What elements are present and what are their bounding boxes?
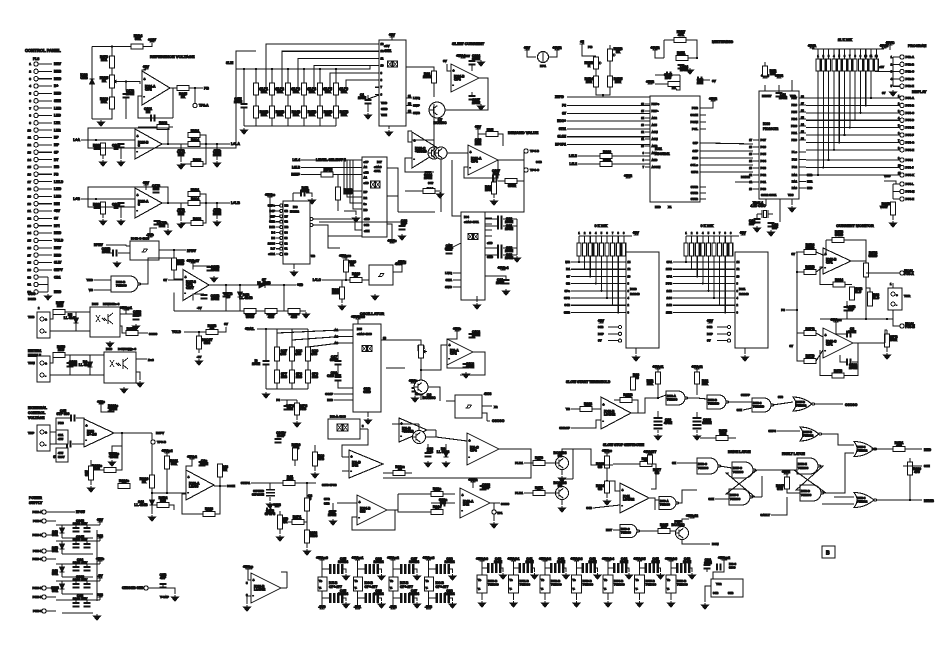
wire picvdd2 (791, 80, 793, 85)
label R3B3 (806, 243, 815, 250)
wire ra2 3 t (589, 236, 591, 243)
wire hc cap (319, 222, 402, 225)
junction (886, 318, 888, 320)
resistor R array1-8 (853, 59, 857, 71)
wire c33n r (446, 502, 455, 504)
svg-text:LMB: LMB (54, 106, 62, 110)
wire opto1 g (138, 332, 148, 334)
label C23 hc (401, 219, 408, 226)
svg-text:3000: 3000 (729, 566, 736, 570)
svg-text:V+: V+ (510, 579, 514, 582)
label R282 (159, 121, 167, 128)
wire cb3 c (577, 567, 582, 569)
pin hc 4 (280, 226, 283, 229)
junction (865, 318, 867, 320)
resistor R ra3-1 (684, 243, 688, 256)
ground (244, 605, 251, 611)
ground (365, 418, 372, 424)
svg-text:D31B: D31B (28, 297, 37, 301)
capacitor C rowA0a (329, 564, 335, 574)
wire ADG S1P (700, 150, 706, 152)
capacitor C rowB2 (550, 563, 556, 573)
wire psrow525 up (99, 522, 101, 525)
wire oa +5 (447, 64, 451, 71)
wire r202 b (341, 299, 343, 303)
IC cell B3 (572, 575, 582, 593)
wire mi 1 (582, 44, 596, 56)
diode zener 243 (60, 528, 65, 533)
svg-text:2200 25V: 2200 25V (73, 578, 88, 582)
wire r163 l (311, 174, 321, 176)
ground (437, 192, 444, 198)
svg-text:74HC00: 74HC00 (677, 583, 688, 587)
svg-text:13: 13 (381, 42, 384, 46)
resistor R32B (640, 462, 652, 467)
svg-text:V-: V- (604, 588, 607, 591)
wire st r1 (657, 369, 659, 372)
svg-text:470N: 470N (664, 421, 673, 425)
ground (491, 522, 498, 528)
wire IC11 14B (673, 304, 735, 306)
svg-text:TBP: TBP (28, 431, 34, 435)
junction (345, 279, 347, 281)
wire IC2 pin3 (375, 57, 379, 59)
power +5Vo2 (187, 455, 197, 459)
wire cb4 cg (627, 568, 629, 572)
resistor R st1 (656, 372, 661, 384)
ground (768, 230, 775, 236)
svg-text:8: 8 (725, 233, 727, 235)
svg-text:3RR: 3RR (807, 180, 812, 184)
label R377 (653, 468, 661, 475)
svg-text:+33: +33 (97, 593, 103, 597)
wire q13 o (426, 436, 437, 438)
svg-text:L+A: L+A (73, 138, 80, 142)
wire PL3 pin 31 (38, 284, 48, 286)
ground (414, 602, 421, 608)
ground (531, 573, 538, 579)
svg-text:1: 1 (578, 233, 580, 235)
svg-text:34B: 34B (713, 591, 718, 595)
wire rdv gnd (493, 194, 495, 198)
connector PL3 pin 21 (34, 209, 38, 213)
capacitor C31 (503, 279, 510, 285)
svg-text:12: 12 (641, 131, 644, 134)
svg-text:A1M: A1M (652, 130, 659, 134)
wire gate out (393, 265, 402, 272)
svg-text:74HC00: 74HC00 (116, 284, 127, 288)
svg-text:3BBN: 3BBN (702, 421, 712, 425)
label RV L+B (191, 188, 200, 195)
svg-text:L+LO: L+LO (313, 278, 322, 282)
wire ra1 1 top (817, 49, 819, 59)
wire dv r2 (498, 134, 503, 146)
wire ra3 rail (686, 235, 739, 237)
connector PL3 pin 31 (34, 282, 38, 286)
junction (303, 68, 305, 70)
svg-text:DRB: DRB (54, 70, 62, 74)
svg-text:V-: V- (510, 588, 513, 591)
svg-text:3TP 600: 3TP 600 (57, 412, 70, 416)
svg-text:DFMB3B+-3: DFMB3B+-3 (103, 302, 120, 306)
wire IC10 drop 5 (606, 256, 608, 298)
svg-text:+: + (622, 489, 624, 493)
ground (330, 519, 337, 525)
wire PLB1b 0 (545, 462, 556, 464)
capacitor C345a (73, 543, 80, 549)
svg-text:+5V2: +5V2 (646, 80, 654, 84)
wire pic vdd (791, 85, 793, 91)
label Q7 (433, 118, 447, 125)
junction (606, 297, 608, 299)
wire ra3 4 t (702, 236, 704, 243)
wire nor out (814, 403, 843, 405)
svg-text:31: 31 (28, 283, 32, 287)
svg-text:V-: V- (667, 588, 670, 591)
wire zener gnd (92, 118, 101, 120)
wire m3 c (443, 493, 455, 495)
wire PL3 bus (47, 277, 49, 292)
wire m oa3 pwr (472, 482, 474, 488)
wire cb5 gnd (639, 593, 641, 600)
wire opto2 e (136, 372, 140, 380)
label R257 (56, 301, 64, 308)
svg-text:DPI: DPI (54, 224, 60, 228)
svg-text:LMB: LMB (54, 195, 62, 199)
wire PL3 pin 1 (38, 63, 52, 65)
wire L+A c165 (216, 144, 218, 149)
wire c124 r (672, 74, 680, 76)
svg-text:3: 3 (138, 203, 140, 207)
svg-text:13: 13 (749, 167, 752, 170)
capacitor C12B (112, 250, 118, 257)
svg-text:ECO+: ECO+ (557, 119, 566, 123)
svg-text:16: 16 (28, 172, 32, 176)
svg-text:11: 11 (408, 94, 411, 98)
IC IC30 PIC16C72 (759, 91, 799, 199)
wire dl vert (761, 476, 763, 497)
wire ps 1 (46, 520, 56, 522)
wire L+A r298l (181, 163, 191, 165)
svg-text:+5Vslew: +5Vslew (456, 54, 470, 58)
wire cb4 c (608, 567, 613, 569)
wire IC10 3T (571, 275, 626, 277)
power +5V/2 (651, 46, 660, 50)
wire ra2 rail (579, 235, 632, 237)
shunt TSR (888, 288, 902, 310)
wire r32b r (651, 464, 656, 489)
wire PJ4 row 5 (806, 127, 900, 129)
svg-text:20R: 20R (586, 80, 593, 84)
wire oscoa pwr (447, 331, 457, 339)
diode D343 (150, 500, 155, 505)
label R314 (835, 278, 843, 285)
svg-text:V-: V- (390, 587, 393, 590)
wire cm fbt r (844, 240, 866, 261)
wire ladder6 to IC2 (342, 80, 375, 89)
svg-text:4: 4 (891, 78, 893, 81)
wire ADG PBP- (645, 110, 650, 112)
wire pj2 c (875, 71, 893, 73)
svg-text:SUPPLY: SUPPLY (29, 501, 43, 505)
wire ic4 cap1 r (503, 225, 517, 227)
svg-text:1K0: 1K0 (58, 348, 64, 352)
svg-text:L+LB: L+LB (231, 201, 240, 205)
label C124 (664, 73, 672, 80)
label C IC2 (358, 93, 367, 100)
wire R282 right (169, 126, 173, 128)
wire opto2 d (136, 358, 147, 360)
connector PJ4-K (900, 173, 904, 177)
wire ic4 gndw (476, 296, 478, 302)
wire RV24 left (92, 46, 131, 48)
capacitor C343r (275, 438, 282, 444)
wire chassis c (162, 583, 164, 588)
wire ps 6 (46, 596, 56, 598)
svg-text:+5V: +5V (143, 181, 150, 185)
label C303 (702, 418, 712, 425)
wire ps 3 (46, 550, 56, 552)
wire c18 (414, 383, 416, 387)
wire ra3 2 t (691, 236, 693, 243)
wire ADG 3G1H (700, 114, 706, 116)
svg-text:OSCGO: OSCGO (845, 403, 858, 407)
wire PL3 pin 6 (38, 100, 52, 102)
wire ic4 SMD (453, 286, 461, 288)
resistor R33 (868, 292, 873, 306)
wire cb6 gnd (670, 593, 672, 600)
wire nc in2 (743, 408, 752, 410)
wire IC11 14B (673, 290, 735, 292)
svg-text:-5V1: -5V1 (354, 605, 361, 609)
wire PIC PB6 (799, 104, 806, 106)
wire Q11 e (561, 500, 563, 506)
ground (604, 499, 611, 505)
wire q pair join (572, 449, 574, 479)
power +5Vss (602, 449, 612, 453)
wire sp out (281, 587, 287, 589)
connector PJ10-B (42, 533, 46, 537)
resistor R323e (104, 468, 116, 473)
svg-text:B1B: B1B (269, 225, 275, 229)
junction (194, 87, 196, 89)
wire cm fb4 (844, 362, 858, 376)
transistor Q7 (429, 102, 445, 118)
power +5Vfl (782, 470, 790, 474)
wire z541 b (61, 549, 63, 554)
wire rv3 b (420, 358, 422, 381)
svg-text:74HC00: 74HC00 (488, 583, 499, 587)
svg-text:D3P: D3P (598, 332, 604, 336)
IC cell B6 (666, 575, 676, 593)
wire PJ4 L (893, 183, 900, 185)
svg-text:V+: V+ (667, 579, 671, 582)
wire m oa2 a (342, 456, 349, 458)
capacitor C3A sp (704, 564, 711, 570)
svg-text:+: + (470, 151, 472, 155)
label D3m (437, 447, 450, 454)
wire c13 r (306, 193, 312, 197)
wire ca0 neg (321, 591, 323, 606)
wire hc 3HP+ (276, 205, 283, 207)
svg-text:SMP: SMP (413, 104, 420, 108)
power +5V2 (709, 97, 717, 101)
gate IC53-A 74HC00 (666, 391, 687, 405)
svg-text:10K: 10K (325, 90, 332, 94)
svg-text:LM2: LM2 (54, 128, 61, 132)
wire PL3 pin 16 (38, 173, 52, 175)
diode zener 24B (60, 544, 65, 549)
svg-text:SLIV: SLIV (54, 261, 62, 265)
capacitor C rowA2c (400, 593, 406, 603)
connector PJ4-B (900, 103, 904, 107)
svg-text:28: 28 (28, 261, 32, 265)
label C103 op (69, 360, 78, 367)
svg-text:A12: A12 (652, 116, 658, 120)
wire dv r (478, 133, 486, 135)
svg-text:PJ4-N: PJ4-N (906, 197, 915, 201)
wire IC11 1OD (673, 268, 735, 270)
svg-text:PJ4-M: PJ4-M (906, 190, 915, 194)
resistor R371 (533, 491, 545, 496)
wire p3 (786, 309, 797, 311)
svg-text:1K: 1K (142, 480, 147, 484)
wire IC11 drop 6 (719, 256, 721, 305)
junction (167, 143, 169, 145)
svg-text:+: + (603, 403, 605, 407)
svg-text:23K: 23K (261, 113, 268, 117)
wire c13 l (293, 192, 300, 194)
wire ladder col4 top (303, 69, 305, 83)
svg-text:3HPV: 3HPV (54, 268, 63, 272)
svg-text:+5V: +5V (879, 65, 884, 69)
capacitor C ic4 3 (497, 252, 503, 259)
wire ext h (116, 446, 122, 470)
wire r3t4 (865, 261, 867, 263)
svg-text:VEE: VEE (381, 113, 387, 117)
label zener 243 (52, 530, 58, 537)
wire to R220 (424, 67, 434, 71)
svg-text:19: 19 (28, 195, 32, 199)
svg-text:6: 6 (713, 233, 715, 235)
label R L+A (93, 144, 101, 151)
wire lmlo (322, 279, 350, 281)
wire r163 r (335, 174, 344, 176)
wire C172 gnd (125, 98, 127, 119)
wire d5 b (75, 323, 77, 331)
label C345 (73, 535, 88, 542)
svg-text:SLM: SLM (226, 61, 233, 65)
wire m2 in (337, 502, 357, 504)
svg-text:-: - (45, 330, 46, 334)
label R202 (332, 288, 341, 295)
wire ADG A12 (645, 117, 650, 119)
svg-text:100N: 100N (424, 176, 433, 180)
svg-text:8: 8 (29, 114, 31, 118)
ground (605, 601, 612, 607)
svg-text:16: 16 (749, 146, 752, 149)
capacitor C rowA3c (436, 593, 442, 603)
wire ADG SCL+ (700, 164, 706, 166)
wire r362 r (169, 505, 174, 510)
wire IC11 drop 0 (685, 256, 687, 262)
wire r32 t (90, 460, 92, 466)
power +5V/2 (553, 46, 562, 50)
wire ladder col5 top (319, 69, 321, 83)
svg-text:+5V: +5V (598, 319, 605, 323)
wire ra1 9 drop (859, 71, 861, 113)
wire IC11 drop 2 (696, 256, 698, 276)
power +5V (524, 46, 531, 50)
wire RV25-R280 (111, 88, 113, 97)
svg-text:V+: V+ (390, 580, 394, 583)
op-amp IC24-B (451, 64, 479, 92)
wire zero join2 (567, 95, 603, 97)
wire ps 2 (46, 534, 56, 536)
wire q13 c (418, 424, 420, 431)
svg-text:METERING: METERING (712, 39, 733, 44)
svg-text:IC9: IC9 (293, 205, 298, 209)
connector PJ4-A (900, 96, 904, 100)
svg-text:SCL+: SCL+ (691, 163, 699, 167)
wire ca2 cg (414, 569, 417, 573)
label C171 L+B (177, 209, 185, 216)
power +12 (97, 534, 103, 538)
optocoupler IC36 (104, 347, 136, 383)
wire cb3 gnd (576, 593, 578, 600)
wire ra1 7 top (849, 49, 851, 59)
svg-text:PC7: PC7 (761, 138, 767, 142)
ground (118, 160, 125, 166)
svg-text:+5Vca0: +5Vca0 (316, 556, 328, 560)
connector PJ4-G (900, 140, 904, 144)
connector PL3 pin 13 (34, 150, 38, 154)
wire ramp in (251, 482, 283, 484)
svg-text:1N: 1N (146, 110, 151, 114)
svg-text:+5: +5 (580, 40, 584, 44)
wire IC11 aux 0 (717, 326, 727, 328)
svg-text:IC8-A 4093: IC8-A 4093 (330, 415, 346, 419)
resistor R279 (110, 56, 115, 68)
svg-text:74HC00: 74HC00 (733, 470, 744, 474)
svg-text:0V: 0V (882, 91, 886, 95)
wire g45 in2 (126, 252, 130, 254)
ground (291, 270, 298, 276)
svg-text:+5Vcb1: +5Vcb1 (508, 557, 520, 561)
wire met vert (663, 40, 665, 58)
label R327 (776, 484, 784, 491)
wire opto1 b (65, 311, 90, 313)
transistor Q10 (556, 457, 569, 470)
svg-text:L1LB: L1LB (569, 154, 578, 158)
wire ADG-PIC 4 (706, 171, 753, 173)
capacitor C rowA1d (373, 593, 379, 603)
ground (425, 461, 432, 467)
wire L+B r298r (203, 203, 206, 223)
label PJ5-B (905, 322, 915, 329)
IC cell B1 (509, 575, 519, 593)
resistor R34n (431, 510, 443, 515)
wire PL3 pin 32 (38, 291, 48, 293)
power +5VB (880, 44, 889, 48)
svg-text:24: 24 (28, 231, 32, 235)
capacitor C165 L+A (214, 149, 221, 155)
label R3T3 top (835, 230, 844, 237)
gate IC8-C 4093b (455, 392, 492, 418)
transistor Q9 (435, 147, 447, 159)
wire PIC PC4 (753, 160, 759, 162)
capacitor C cm1 (846, 331, 852, 338)
